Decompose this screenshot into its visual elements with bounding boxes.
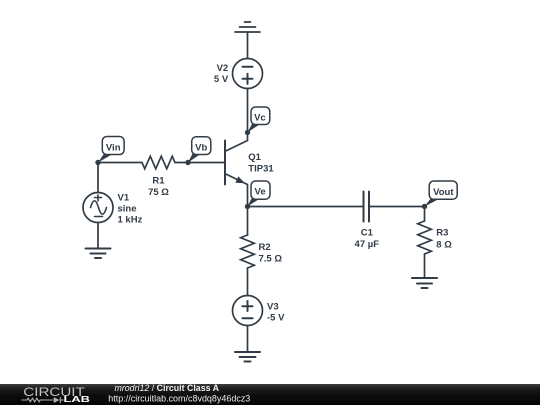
svg-text:http://circuitlab.com/c8vdq8y4: http://circuitlab.com/c8vdq8y46dcz3 — [108, 394, 250, 404]
svg-text:V2: V2 — [217, 63, 229, 74]
svg-text:mrodri12 / Circuit Class A: mrodri12 / Circuit Class A — [115, 383, 220, 394]
svg-text:R1: R1 — [152, 176, 165, 187]
svg-text:Vc: Vc — [254, 112, 266, 123]
svg-text:TIP31: TIP31 — [248, 164, 274, 175]
svg-text:-5 V: -5 V — [267, 313, 285, 324]
svg-text:Vin: Vin — [106, 142, 121, 153]
svg-text:Q1: Q1 — [248, 152, 261, 163]
svg-text:sine: sine — [118, 204, 137, 215]
svg-text:7.5 Ω: 7.5 Ω — [259, 254, 283, 265]
svg-text:Ve: Ve — [255, 187, 266, 198]
svg-text:1 kHz: 1 kHz — [118, 215, 143, 226]
svg-text:Vb: Vb — [195, 142, 207, 153]
svg-text:V3: V3 — [267, 302, 279, 313]
svg-text:8 Ω: 8 Ω — [436, 240, 452, 251]
svg-text:V1: V1 — [118, 193, 130, 204]
svg-text:Vout: Vout — [433, 187, 454, 198]
svg-text:47 µF: 47 µF — [355, 239, 380, 250]
svg-text:C1: C1 — [361, 227, 374, 238]
svg-text:R3: R3 — [436, 228, 448, 239]
svg-text:LAB: LAB — [64, 394, 91, 404]
svg-text:R2: R2 — [259, 242, 271, 253]
svg-text:5 V: 5 V — [214, 74, 229, 85]
svg-text:75 Ω: 75 Ω — [148, 187, 169, 198]
